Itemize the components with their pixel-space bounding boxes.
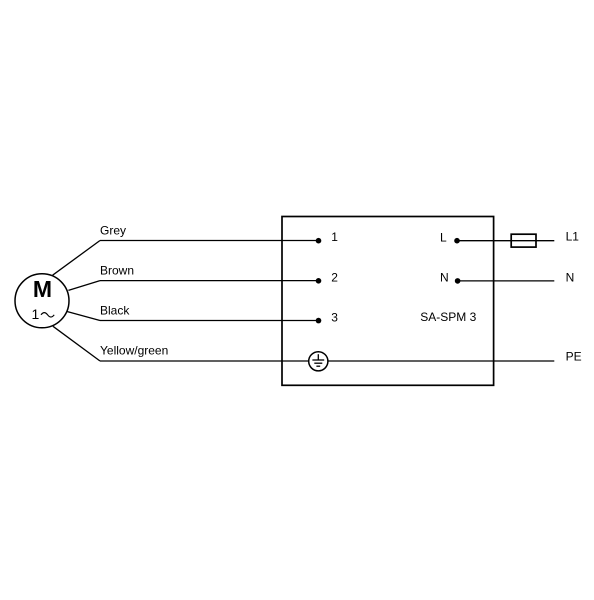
motor M circle — [15, 274, 69, 328]
wire PE to right — [328, 360, 554, 362]
wire brown diagonal from motor — [68, 281, 100, 291]
wire N to right — [458, 280, 555, 282]
svg-text:3: 3 — [331, 310, 338, 324]
svg-text:PE: PE — [566, 350, 582, 364]
wire grey diagonal from motor — [53, 241, 100, 276]
svg-text:L: L — [440, 231, 447, 245]
earth symbol PE circle — [309, 352, 328, 371]
earth symbol vertical stroke — [317, 354, 319, 360]
control box SA-SPM 3 outline — [282, 217, 494, 386]
earth symbol bar 2 — [314, 362, 322, 364]
svg-text:L1: L1 — [566, 230, 580, 244]
svg-text:1: 1 — [32, 306, 40, 322]
svg-text:Brown: Brown — [100, 264, 134, 278]
svg-text:M: M — [33, 276, 52, 302]
fuse through line — [511, 240, 536, 242]
svg-text:Grey: Grey — [100, 224, 126, 238]
wire grey horizontal to terminal 1 — [100, 240, 319, 242]
motor label 1~ — [32, 306, 55, 322]
svg-text:SA-SPM 3: SA-SPM 3 — [420, 310, 476, 324]
wire black diagonal from motor — [67, 312, 100, 321]
wire black horizontal to terminal 3 — [100, 320, 319, 322]
wire yellow/green horizontal to earth symbol — [100, 360, 308, 362]
fuse F1 — [511, 234, 536, 247]
earth symbol bar 3 — [316, 365, 320, 367]
wire yellow/green diagonal from motor — [53, 326, 100, 361]
wire brown horizontal to terminal 2 — [100, 280, 319, 282]
terminal dot 3 — [316, 318, 322, 324]
svg-text:Black: Black — [100, 304, 130, 318]
earth symbol bar 1 — [312, 359, 324, 361]
svg-text:Yellow/green: Yellow/green — [100, 344, 168, 358]
svg-text:1: 1 — [331, 230, 338, 244]
terminal dot 2 — [316, 278, 322, 284]
terminal dot L — [454, 238, 460, 244]
wire L to fuse and L1 — [457, 240, 554, 242]
svg-text:N: N — [566, 270, 575, 284]
svg-text:2: 2 — [331, 270, 338, 284]
terminal dot 1 — [316, 238, 322, 244]
svg-text:N: N — [440, 271, 449, 285]
terminal dot N — [455, 278, 461, 284]
